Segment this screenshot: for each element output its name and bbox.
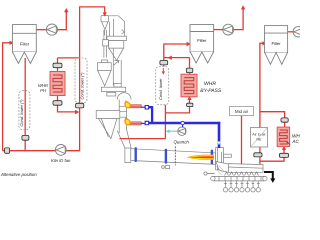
wire: left filter to fan 1: [36, 29, 46, 31]
kiln drive motor: [162, 165, 170, 168]
wire: riser to left filter inlet: [3, 43, 10, 151]
fan 2: [223, 24, 234, 35]
kiln hood: [216, 148, 232, 170]
svg-text:Mid air: Mid air: [235, 109, 249, 114]
kiln tyre 1: [135, 147, 137, 162]
valve above bypass cond tower: [160, 60, 168, 65]
svg-text:Filter: Filter: [20, 41, 30, 46]
conditioning tower (alternative, middle): [75, 58, 87, 103]
preheater cyclone C1 (top stage): [101, 16, 109, 36]
preheater cyclone C4 body: [96, 111, 120, 119]
preheater cyclone C2: [109, 41, 124, 64]
wire: lower burner air line: [141, 122, 145, 124]
drag chain conveyor: [211, 176, 267, 181]
wire: main exhaust line to kiln ID fan: [3, 150, 56, 152]
riser duct lower column: [113, 48, 121, 87]
Air to air HE box: [250, 128, 267, 148]
arrow stack 1: [64, 8, 68, 12]
svg-text:Cond. tower (*): Cond. tower (*): [80, 72, 85, 100]
conditioning tower (alternative, left): [19, 91, 30, 130]
bag filter 1 (left): [13, 25, 37, 64]
svg-text:AC: AC: [291, 139, 299, 144]
kiln ID fan: [55, 145, 66, 156]
kiln tyre 2: [165, 149, 167, 164]
kiln main flame: [187, 155, 215, 160]
rotary kiln shell: [131, 149, 216, 165]
bag filter 2 (middle): [190, 25, 214, 64]
calciner column: [119, 100, 126, 134]
wire: WHR AC branch top: [260, 112, 285, 118]
svg-text:Air to air: Air to air: [252, 133, 266, 137]
kiln tyre 3: [211, 150, 213, 165]
wire: left cond tower branch from filter hopper: [24, 58, 26, 135]
wire: upper burner air line: [141, 106, 145, 108]
wire: fan 1 to stack: [58, 12, 67, 30]
clinker cooler grate box: [228, 164, 263, 173]
riser duct gooseneck: [109, 16, 125, 36]
svg-text:Altenative position: Altenative position: [0, 172, 37, 177]
valve below left cond tower: [22, 135, 29, 140]
kiln burner with air feed: [204, 166, 224, 176]
valve WHR BY-PASS bottom: [187, 103, 193, 106]
arrow into WHR AC: [282, 146, 286, 150]
fan 3: [293, 27, 303, 37]
smoke chamber dome: [117, 93, 131, 100]
arrow inside bypass cond tower: [162, 68, 165, 75]
cooling air fans row: [223, 181, 260, 192]
wire: bypass header: [164, 57, 190, 59]
valve WHR PH outlet: [53, 101, 62, 106]
arrow on bypass header: [168, 56, 172, 60]
wire: cond tower outlet down to bypass takeoff: [164, 105, 166, 139]
wire: bypass takeoff from kiln inlet: [120, 138, 166, 140]
valve on main exhaust line: [5, 148, 10, 153]
wire: right filter to fan 3: [288, 31, 293, 33]
bag filter 3 (right): [265, 26, 288, 65]
svg-text:Filter: Filter: [271, 41, 281, 46]
splitter box: [107, 36, 127, 40]
preheater cyclone C4 cone: [98, 118, 117, 138]
valve WHR AC bottom: [279, 153, 288, 157]
svg-text:Kiln ID fan: Kiln ID fan: [51, 158, 71, 163]
arrow in hood drop pipe: [217, 142, 220, 146]
arrow into cyclone C1: [103, 12, 107, 16]
kiln inlet chute: [117, 130, 131, 149]
WHR AC heat exchanger: [277, 127, 290, 147]
WHR PH heat exchanger: [50, 72, 65, 96]
wire: right string riser cooler to filter: [259, 157, 261, 165]
arrow stack 2: [241, 5, 245, 9]
calciner burner lance upper: [130, 105, 141, 108]
wire: WHR AC branch bottom: [283, 147, 285, 154]
wire: fan 2 to stack: [234, 9, 244, 30]
wire: quench air main: [149, 122, 220, 124]
wire: middle filter inlet: [164, 44, 187, 58]
clinker discharge arrow: [264, 172, 275, 183]
wire: quench fan suction (cyan): [166, 129, 178, 133]
svg-text:PH: PH: [40, 88, 47, 93]
wire: WHR PH top tap: [58, 57, 80, 59]
fan 1: [46, 24, 57, 35]
calciner flame upper: [124, 100, 131, 108]
svg-text:Cond. tower (*): Cond. tower (*): [19, 99, 24, 127]
quench fan: [178, 127, 186, 135]
calciner flame lower: [124, 117, 131, 125]
valve WHR PH inlet: [53, 63, 62, 67]
node: lower burner connection: [145, 121, 150, 126]
preheater cyclone C3: [97, 60, 111, 86]
wire: mid air extraction: [241, 116, 243, 164]
svg-text:WHR: WHR: [204, 81, 216, 87]
WHR BY-PASS heat exchanger: [181, 74, 197, 97]
valve WHR AC top: [281, 118, 288, 122]
valve air-to-air HE line: [254, 153, 262, 157]
wire: WHR PH outlet: [57, 96, 59, 101]
wire: quench air drop to hood: [218, 122, 221, 148]
girth gear centre line: [174, 146, 176, 165]
meal chute: [103, 30, 109, 58]
arrow into WHR BY-PASS: [187, 96, 191, 100]
arrow into right filter: [262, 41, 266, 45]
preheater platform: [101, 87, 125, 91]
conditioning tower (bypass string): [156, 67, 169, 105]
valve below middle cond tower: [76, 103, 84, 108]
svg-text:BY-PASS: BY-PASS: [200, 88, 222, 94]
arrow into left filter: [10, 41, 14, 45]
svg-text:Cond. tower: Cond. tower: [158, 78, 163, 100]
node: quench fan tie-in: [181, 121, 184, 127]
valve WHR BY-PASS top: [186, 68, 193, 73]
svg-text:HE: HE: [257, 137, 263, 141]
wire: burner air riser: [151, 106, 153, 123]
wire: WHR BY-PASS top: [189, 58, 191, 69]
wire: WHR BY-PASS bottom: [189, 97, 191, 103]
calciner burner lance lower: [130, 122, 141, 125]
svg-text:WHR: WHR: [292, 134, 300, 139]
svg-text:Quench: Quench: [174, 139, 190, 144]
cooler inlet section: [216, 162, 228, 173]
node: upper burner connection: [145, 105, 150, 110]
svg-text:Filter: Filter: [197, 38, 207, 43]
wire: downcomer from preheater to ID fan: [66, 7, 105, 151]
grate arches: [225, 172, 259, 175]
arrow WHR PH outlet junction: [75, 110, 79, 114]
wire: middle filter to fan 2: [214, 29, 223, 31]
arrow into middle filter: [187, 42, 191, 46]
kiln inlet seal: [125, 148, 131, 163]
Mid air box: [230, 107, 254, 116]
